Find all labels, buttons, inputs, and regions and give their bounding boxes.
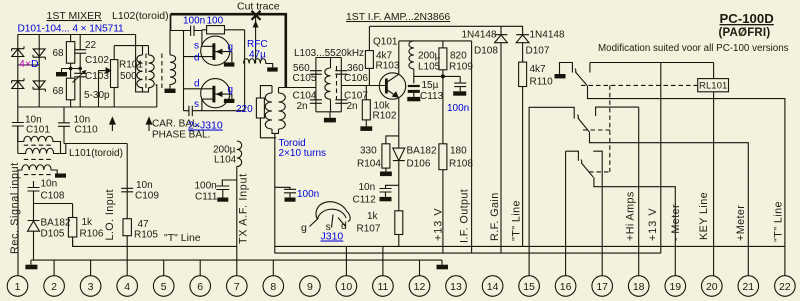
svg-text:820: 820 — [450, 51, 467, 62]
wire arm3 to -Meter pin19 — [594, 177, 675, 276]
dashed linkage contact2 — [583, 129, 610, 131]
svg-text:C104: C104 — [293, 91, 317, 102]
wire R106 bottom bend — [72, 240, 74, 246]
jfet Q1 — [201, 36, 230, 65]
svg-text:- Meter: - Meter — [670, 204, 682, 241]
ground bar 100n osc — [285, 198, 296, 202]
wire arm1 to T right rail — [588, 86, 785, 276]
pin circle 13 — [446, 276, 467, 297]
wire L102 left lead — [136, 35, 143, 92]
svg-text:500: 500 — [120, 71, 137, 82]
pin circle 17 — [592, 276, 613, 297]
svg-text:15: 15 — [523, 281, 535, 293]
ground bar gate1 — [224, 62, 235, 66]
relay coil RL101 box — [698, 79, 729, 92]
svg-text:220: 220 — [236, 104, 253, 115]
svg-text:15µ: 15µ — [422, 80, 439, 91]
wire pin5 stub — [163, 260, 165, 276]
wire D106 to R107 — [398, 185, 400, 211]
wire pin3 stub — [90, 260, 92, 276]
capacitor C113 — [413, 69, 415, 84]
tank L103 box wires — [316, 58, 341, 112]
wire mid junction to caps — [62, 68, 81, 70]
ground bar 100n if — [453, 91, 466, 95]
wire diode column 2 — [38, 35, 40, 108]
ground bar C111 — [217, 198, 228, 202]
svg-text:22: 22 — [85, 40, 97, 51]
capacitor C112 — [380, 185, 399, 197]
contact1 arm — [575, 69, 587, 86]
wire T2 tops — [272, 86, 279, 93]
inductor RFC — [244, 59, 273, 68]
wire arm2 to +Meter pin21 — [590, 132, 749, 276]
svg-text:+Hi Amps: +Hi Amps — [625, 191, 637, 241]
wire left rail from thick line — [170, 14, 172, 31]
ground bar contact1 — [555, 74, 566, 78]
svg-text:330: 330 — [360, 146, 377, 157]
inductor L101 winding 1 — [18, 136, 61, 153]
svg-text:C113: C113 — [420, 91, 444, 102]
svg-text:RL101: RL101 — [699, 80, 727, 91]
svg-text:R.F. Gain: R.F. Gain — [489, 192, 501, 241]
svg-text:s: s — [194, 99, 199, 110]
svg-text:6: 6 — [197, 281, 203, 293]
svg-text:C105: C105 — [293, 73, 317, 84]
svg-text:L.O. Input: L.O. Input — [104, 189, 116, 240]
svg-text:4k7: 4k7 — [530, 64, 547, 75]
svg-text:g: g — [301, 222, 307, 234]
svg-text:C106: C106 — [344, 73, 368, 84]
contact1 right terminal — [589, 63, 591, 73]
pin circle 2 — [44, 276, 65, 297]
svg-text:g: g — [228, 42, 234, 53]
svg-text:C108: C108 — [41, 191, 65, 202]
wire collector top rail — [399, 40, 472, 42]
contact3 left terminal — [566, 151, 579, 276]
capacitor 100n coupling — [171, 26, 202, 36]
J310 leads — [310, 215, 346, 228]
wire pin7 TX AF line — [236, 167, 238, 277]
wire tank left mid junction — [286, 87, 316, 89]
ground bar RFC — [267, 67, 278, 71]
pin circle 7 — [227, 276, 248, 297]
diode D103 — [12, 78, 24, 88]
svg-text:1ST MIXER: 1ST MIXER — [47, 10, 103, 22]
svg-text:22: 22 — [779, 281, 791, 293]
pin circle 18 — [628, 276, 649, 297]
wire pin10 line — [345, 246, 347, 276]
svg-text:d: d — [194, 79, 200, 90]
capacitor C101 — [12, 107, 24, 142]
inductor L104 — [237, 141, 242, 167]
svg-text:18: 18 — [633, 281, 645, 293]
ground bar mixer mid — [61, 69, 63, 73]
wire T-line right segment — [275, 245, 785, 247]
pin circle 4 — [117, 276, 138, 297]
svg-text:10n: 10n — [359, 182, 376, 193]
svg-text:7: 7 — [234, 281, 240, 293]
wire 220 bottom link — [260, 118, 276, 138]
svg-text:1N4148: 1N4148 — [462, 30, 497, 41]
svg-text:g: g — [228, 85, 234, 96]
wire R101 top rail — [114, 45, 148, 47]
wire pin11 line — [382, 246, 384, 276]
svg-text:(PAØFRI): (PAØFRI) — [719, 27, 771, 39]
contact2 arm — [578, 115, 590, 133]
svg-text:D101-104... 4 × 1N5711: D101-104... 4 × 1N5711 — [18, 24, 125, 35]
svg-text:R101: R101 — [119, 60, 143, 71]
svg-text:2: 2 — [51, 281, 57, 293]
svg-text:21: 21 — [742, 281, 754, 293]
diode D101 — [12, 46, 24, 56]
svg-text:C111: C111 — [195, 192, 218, 203]
svg-text:200µ: 200µ — [418, 51, 441, 62]
wire fet1 source node — [202, 30, 204, 47]
wire right rail — [244, 30, 246, 111]
wire C110 bottom to LO line — [64, 143, 127, 145]
svg-text:17: 17 — [596, 281, 608, 293]
core L103 dashed — [336, 66, 338, 100]
resistor 68 upper — [66, 42, 74, 64]
contact3 right terminal — [593, 151, 602, 161]
capacitor C104 — [310, 100, 322, 104]
wire RFC arrow line — [255, 17, 257, 64]
ground bar C113 — [407, 97, 420, 101]
wire coil top rail — [590, 62, 714, 64]
contact1 left terminal — [560, 63, 573, 75]
capacitor C110 — [58, 107, 70, 144]
svg-text:R106: R106 — [80, 229, 104, 240]
wire LO line — [126, 144, 128, 193]
pin circle 15 — [519, 276, 540, 297]
svg-text:Cut trace: Cut trace — [237, 1, 280, 13]
svg-text:L105: L105 — [418, 62, 441, 73]
wire pin2 stub — [53, 260, 55, 276]
svg-text:1N4148: 1N4148 — [530, 30, 565, 41]
wire pin17 drop — [601, 161, 603, 276]
svg-text:5-30p: 5-30p — [84, 90, 110, 101]
svg-text:1: 1 — [15, 281, 21, 293]
potentiometer R101 — [111, 60, 118, 88]
arrow CAR.BAL — [111, 120, 113, 131]
capacitor C103 trimmer — [73, 69, 87, 108]
svg-text:s: s — [194, 41, 199, 52]
wire ground bus — [31, 259, 442, 261]
transformer T2 right winding — [279, 93, 286, 129]
jfet Q2 — [201, 79, 230, 108]
svg-text:20: 20 — [706, 281, 718, 293]
inductor L102 winding A — [137, 46, 149, 92]
capacitor 100n osc — [275, 187, 296, 197]
resistor R107 — [395, 211, 403, 235]
wire T2 bottoms U-link — [272, 129, 279, 133]
svg-text:R109: R109 — [449, 62, 473, 73]
svg-text:100n: 100n — [297, 189, 319, 200]
svg-text:10n: 10n — [136, 180, 153, 191]
pin circle 1 — [7, 276, 28, 297]
svg-text:D108: D108 — [474, 46, 498, 57]
diode D102 — [33, 49, 45, 60]
capacitor C109 — [121, 188, 133, 218]
svg-text:J310: J310 — [321, 231, 344, 243]
pin circle 20 — [702, 276, 723, 297]
svg-text:R108: R108 — [449, 159, 473, 170]
core L102 dashed 1 — [145, 54, 147, 89]
resistor R105 — [123, 219, 131, 236]
wire +13V rail upper — [442, 76, 444, 143]
inductor L105 — [409, 41, 414, 69]
capacitor C107 — [335, 100, 347, 104]
wire R103 top rail — [369, 25, 523, 27]
svg-text:5: 5 — [161, 281, 167, 293]
wire 220 top link to T2 — [260, 86, 272, 98]
svg-text:100n: 100n — [183, 16, 205, 27]
wire collector — [398, 41, 400, 74]
svg-text:R102: R102 — [373, 111, 397, 122]
X mark cut point — [252, 11, 261, 20]
svg-text:3: 3 — [88, 281, 94, 293]
pin circle 19 — [665, 276, 686, 297]
svg-text:2n: 2n — [347, 101, 358, 112]
svg-text:100n: 100n — [447, 103, 469, 114]
svg-text:BA182: BA182 — [41, 218, 71, 229]
svg-text:68: 68 — [53, 86, 65, 97]
svg-text:2n: 2n — [297, 101, 308, 112]
pin circle 12 — [409, 276, 430, 297]
wire KEY line through coil pin20 — [713, 63, 715, 277]
wire +13V bus — [275, 252, 661, 254]
wire L105 R109 junction rail — [414, 75, 460, 77]
svg-text:C112: C112 — [353, 195, 377, 206]
ground bar R104 — [380, 172, 392, 177]
svg-text:R104: R104 — [357, 159, 381, 170]
core L101 dash 1 — [24, 144, 53, 146]
svg-text:2×10 turns: 2×10 turns — [279, 148, 327, 159]
capacitor 100n bottom — [184, 106, 245, 116]
wire fet loop left rail — [183, 31, 185, 111]
ground bar R102 — [360, 126, 372, 131]
svg-text:10: 10 — [341, 281, 353, 293]
svg-text:"T" Line: "T" Line — [773, 201, 785, 242]
pin circle 14 — [482, 276, 503, 297]
svg-text:R103: R103 — [376, 61, 400, 72]
svg-text:Modification suited voor all P: Modification suited voor all PC-100 vers… — [598, 43, 789, 54]
pin circle 22 — [775, 276, 796, 297]
wire IF output line — [471, 41, 473, 253]
J310 package outline — [316, 202, 350, 222]
ground bar L101 — [55, 174, 66, 178]
wire mixer top rail — [18, 34, 136, 36]
svg-text:L104: L104 — [214, 155, 237, 166]
svg-text:1k: 1k — [82, 217, 94, 228]
svg-text:KEY Line: KEY Line — [698, 192, 710, 240]
wire emitter down — [398, 98, 400, 147]
svg-text:Rec. Signal input: Rec. Signal input — [9, 162, 21, 254]
ground bar gate2 — [224, 99, 235, 103]
diode D108 — [495, 26, 508, 253]
svg-text:"T" Line: "T" Line — [164, 232, 201, 244]
wire pin8 stub — [272, 260, 274, 276]
inductor L101 winding 3 — [18, 165, 57, 174]
contact2 right terminal — [596, 107, 639, 116]
transistor Q101 — [379, 73, 405, 99]
wire C108 junction — [34, 203, 73, 205]
svg-text:C101: C101 — [26, 125, 50, 136]
wire T-line left segment — [72, 245, 237, 247]
svg-text:C109: C109 — [135, 191, 159, 202]
resistor R104 — [382, 144, 390, 168]
resistor 100 — [207, 26, 225, 34]
resistor 220 — [256, 98, 264, 118]
resistor R106 — [68, 218, 76, 238]
pin circle 9 — [300, 276, 321, 297]
svg-text:C110: C110 — [75, 125, 99, 136]
pin circle 11 — [373, 276, 394, 297]
wire emitter junction to D106 — [386, 136, 399, 144]
ground bar C112 — [380, 197, 392, 201]
svg-text:D105: D105 — [41, 229, 65, 240]
svg-text:9: 9 — [307, 281, 313, 293]
wire +13V drop — [660, 63, 662, 254]
svg-text:8: 8 — [270, 281, 276, 293]
dashed linkage vertical — [609, 85, 611, 171]
svg-text:Q101: Q101 — [373, 37, 398, 48]
inductor L102 winding B — [149, 46, 157, 107]
svg-text:PC-100D: PC-100D — [720, 11, 774, 26]
svg-text:4×D: 4×D — [19, 58, 39, 70]
resistor 68 lower — [66, 78, 74, 100]
svg-text:L102(toroid): L102(toroid) — [112, 10, 169, 22]
wire T2 center tap down — [274, 133, 276, 253]
svg-text:D106: D106 — [407, 159, 431, 170]
wire +HiAmps drop pin18 — [638, 107, 640, 276]
svg-text:R110: R110 — [530, 77, 554, 88]
svg-text:13: 13 — [450, 281, 462, 293]
capacitor C102 — [74, 35, 86, 69]
svg-text:14: 14 — [487, 281, 499, 293]
pin circle 5 — [153, 276, 174, 297]
wire tank right mid to base — [341, 85, 385, 87]
svg-text:1k: 1k — [367, 211, 379, 222]
dashed linkage horizontal to RL101 — [581, 84, 698, 86]
ground bar tank — [329, 112, 331, 118]
transformer T2 left winding — [265, 93, 272, 129]
pin circle 21 — [738, 276, 759, 297]
pin circle 16 — [555, 276, 576, 297]
svg-text:+Meter: +Meter — [735, 205, 747, 241]
svg-text:+13 V: +13 V — [433, 207, 445, 241]
resistor R109 — [439, 48, 447, 70]
svg-text:10n: 10n — [41, 179, 58, 190]
svg-text:11: 11 — [377, 281, 388, 293]
svg-text:D107: D107 — [526, 46, 550, 57]
svg-text:47: 47 — [138, 219, 150, 230]
core L101 dash 2 — [24, 158, 53, 160]
core L101 dash 3 — [24, 174, 53, 176]
diode D107 — [516, 26, 529, 62]
wire thick node to tank — [279, 87, 316, 89]
capacitor C106 — [335, 71, 347, 75]
wire pin15 to contact2 left — [529, 107, 574, 276]
pin circle 10 — [336, 276, 357, 297]
pin circle 3 — [80, 276, 101, 297]
ground bar at ground-bus right end — [441, 260, 443, 265]
inductor L101 winding 2 — [18, 126, 66, 154]
resistor R103 — [365, 51, 373, 69]
pin circle 8 — [263, 276, 284, 297]
arrow head up — [253, 21, 259, 28]
svg-text:RFC: RFC — [247, 39, 268, 50]
svg-text:"T" Line: "T" Line — [511, 200, 523, 241]
svg-text:L101(toroid): L101(toroid) — [69, 148, 123, 159]
wire pin6 stub — [199, 260, 201, 276]
svg-text:2×J310: 2×J310 — [188, 120, 223, 132]
svg-text:R105: R105 — [134, 230, 158, 241]
diode D105 — [28, 204, 40, 261]
capacitor C105 — [310, 71, 322, 75]
svg-text:16: 16 — [560, 281, 572, 293]
wire mixer bottom rail — [18, 106, 157, 108]
svg-text:68: 68 — [53, 48, 65, 59]
arrow PHASE BAL — [148, 120, 150, 131]
inductor L103 — [325, 58, 331, 112]
wire thick cut-trace line — [171, 14, 286, 87]
svg-text:d: d — [194, 53, 200, 64]
diode D104 — [33, 81, 45, 92]
svg-text:TX A.F. Input: TX A.F. Input — [238, 173, 250, 244]
svg-text:+13 V: +13 V — [647, 207, 659, 241]
contact3 arm — [581, 160, 593, 178]
svg-text:4: 4 — [124, 281, 130, 293]
ground bar at ground-bus left end — [30, 260, 32, 265]
inductor L102 winding C — [170, 31, 176, 89]
svg-text:12: 12 — [414, 281, 426, 293]
svg-text:BA182: BA182 — [407, 146, 437, 157]
svg-text:180: 180 — [450, 146, 467, 157]
ground bar L102 — [165, 89, 176, 93]
resistor R108 — [439, 144, 447, 170]
capacitor 100n if — [454, 76, 466, 91]
capacitor C108 — [28, 181, 40, 204]
wire pin12 stub — [419, 260, 421, 276]
wire mixer mid link — [18, 64, 39, 66]
svg-text:19: 19 — [669, 281, 681, 293]
svg-text:100n: 100n — [195, 181, 217, 192]
svg-text:C102: C102 — [85, 55, 109, 66]
wire pin1 Rec line — [17, 170, 19, 276]
junction dots — [69, 67, 73, 71]
svg-text:I.F. Output: I.F. Output — [459, 189, 471, 243]
svg-text:100: 100 — [207, 16, 224, 27]
dashed linkage contact3 — [589, 171, 610, 173]
core L102 dashed 2 — [161, 54, 163, 89]
resistor R110 — [519, 62, 527, 86]
svg-text:1ST I.F. AMP...2N3866: 1ST I.F. AMP...2N3866 — [346, 12, 450, 23]
svg-text:R107: R107 — [357, 224, 381, 235]
wire C111 branch — [216, 180, 237, 198]
diode D106 — [393, 147, 405, 186]
pin circle 6 — [190, 276, 211, 297]
wire diode column 1 — [17, 35, 19, 108]
resistor R102 — [362, 100, 370, 120]
